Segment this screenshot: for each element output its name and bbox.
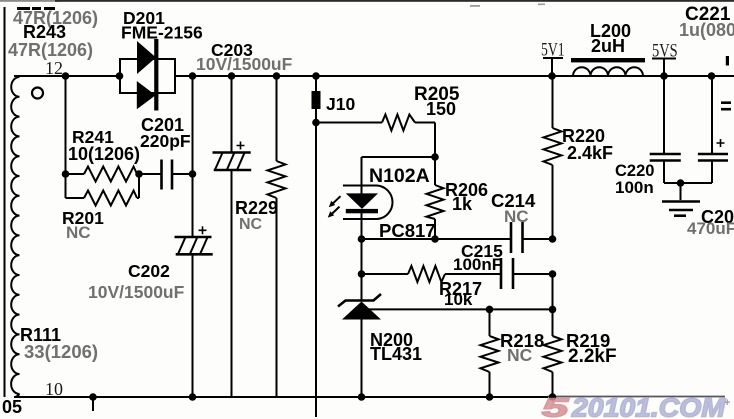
svg-text:R243: R243 bbox=[23, 22, 66, 42]
node junction top rail R229 branch bbox=[273, 72, 281, 80]
node junction R218 top bbox=[486, 306, 494, 314]
capacitor C221 plates cut at edge bbox=[721, 56, 731, 109]
wire horizontal cap commons bbox=[664, 182, 712, 184]
LED emission arrows bbox=[328, 196, 341, 217]
wire vertical opto LED bbox=[361, 157, 363, 300]
inductor L200 bbox=[573, 67, 643, 76]
stray mark top middle bbox=[470, 5, 480, 7]
svg-text:100n: 100n bbox=[615, 178, 654, 197]
resistor R219 bbox=[544, 274, 562, 397]
svg-text:2.4kF: 2.4kF bbox=[567, 143, 613, 163]
node junction top rail J10 branch bbox=[312, 72, 320, 80]
transformer T winding secondary bbox=[11, 77, 19, 394]
node junction top rail 5VS bbox=[660, 72, 668, 80]
svg-text:47R(1206): 47R(1206) bbox=[8, 40, 93, 60]
node junction opto top bbox=[431, 153, 439, 161]
border top edge line bbox=[0, 0, 60, 2]
resistor R206 bbox=[427, 123, 444, 240]
wire top rail left segment bbox=[14, 76, 120, 77]
transformer polarity dot circle bbox=[32, 88, 43, 99]
diode D201 bypass box bbox=[120, 59, 175, 93]
svg-text:NC: NC bbox=[507, 345, 533, 365]
resistor R220 bbox=[544, 76, 562, 239]
svg-text:+: + bbox=[724, 397, 730, 409]
svg-text:20101.COM: 20101.COM bbox=[571, 393, 727, 419]
net label 5VS tick bbox=[652, 59, 676, 77]
watermark 520101.COM bbox=[542, 393, 730, 419]
node junction C201 to vertical bbox=[189, 170, 197, 178]
resistor R201 parallel loop bbox=[66, 174, 140, 206]
wire horizontal to optocoupler anode bbox=[362, 156, 436, 158]
svg-text:1k: 1k bbox=[452, 194, 473, 214]
svg-text:10V/1500uF: 10V/1500uF bbox=[88, 282, 185, 302]
svg-text:NC: NC bbox=[66, 223, 91, 242]
svg-text:10(1206): 10(1206) bbox=[68, 144, 140, 164]
svg-text:2.2kF: 2.2kF bbox=[568, 346, 617, 367]
svg-text:2uH: 2uH bbox=[591, 36, 625, 56]
svg-text:R229: R229 bbox=[235, 198, 278, 218]
resistor R241 bbox=[66, 167, 162, 182]
node junction below J10 bbox=[312, 119, 320, 127]
capacitor C203 electrolytic symbol bbox=[213, 142, 252, 171]
node junction top rail at R241 branch bbox=[62, 72, 70, 80]
diode D201 upper triangle bbox=[137, 41, 156, 74]
resistor R218 bbox=[481, 309, 499, 397]
zener N200 TL431 bbox=[338, 294, 381, 397]
stray mark top middle 2 bbox=[538, 4, 545, 6]
node junction bottom rail R218 bbox=[486, 393, 494, 401]
svg-text:10V/1500uF: 10V/1500uF bbox=[196, 54, 293, 74]
label cut-off text top left bbox=[17, 7, 55, 10]
node junction bottom rail pin10 bbox=[89, 393, 97, 401]
node junction top rail C203 branch bbox=[228, 72, 236, 80]
ground bbox=[662, 183, 700, 216]
wire vertical C202 branch bbox=[192, 76, 194, 397]
wire vertical J10 branch bbox=[315, 76, 317, 417]
svg-text:100nF: 100nF bbox=[453, 255, 502, 274]
node junction top rail at D201 left bbox=[116, 72, 124, 80]
capacitor C214 bbox=[511, 222, 523, 253]
svg-text:PC817: PC817 bbox=[379, 220, 436, 241]
node junction R241 left bbox=[62, 170, 70, 178]
LED cathode bar bbox=[346, 209, 378, 213]
node junction bottom rail TL431 bbox=[358, 393, 366, 401]
svg-text:10k: 10k bbox=[444, 290, 473, 309]
svg-text:J10: J10 bbox=[326, 94, 355, 114]
capacitor C205 electrolytic output bbox=[698, 76, 728, 183]
svg-text:TL431: TL431 bbox=[370, 344, 422, 364]
node junction top rail C202 branch bbox=[189, 72, 197, 80]
node junction ground bbox=[677, 179, 685, 187]
capacitor C220 bbox=[650, 76, 681, 183]
ferrite bead J10 bbox=[312, 91, 321, 109]
inductor L200 core bar bbox=[571, 58, 645, 62]
svg-text:33(1206): 33(1206) bbox=[24, 341, 98, 362]
capacitor C201 bbox=[162, 160, 193, 190]
node junction C215 right bbox=[549, 270, 557, 278]
wire horizontal C214 row bbox=[362, 238, 553, 240]
diode D201 lower triangle bbox=[137, 81, 156, 109]
svg-text:05: 05 bbox=[2, 397, 22, 417]
node junction top rail output cap bbox=[708, 72, 716, 80]
svg-text:C202: C202 bbox=[128, 261, 170, 281]
node junction R219 top bbox=[549, 306, 557, 314]
node junction top rail 5V1 bbox=[548, 72, 556, 80]
svg-text:1u(080(: 1u(080( bbox=[679, 20, 734, 40]
svg-text:220pF: 220pF bbox=[140, 131, 191, 151]
diode D201 cathode bar bbox=[154, 39, 158, 111]
resistor R205 bbox=[316, 115, 435, 131]
node junction bottom rail C202 bbox=[189, 393, 197, 401]
wire vertical branch to R241 bbox=[65, 76, 67, 174]
op-to coupler U N102A enclosure bbox=[343, 186, 393, 220]
svg-text:470uF: 470uF bbox=[687, 219, 734, 238]
wire vertical C203 branch bbox=[231, 76, 233, 397]
node junction C214 right bbox=[549, 235, 557, 243]
wire top rail right segment bbox=[175, 75, 734, 77]
node junction R206 bottom bbox=[431, 235, 439, 243]
svg-text:NC: NC bbox=[239, 216, 263, 233]
svg-text:FME-2156: FME-2156 bbox=[121, 23, 203, 43]
net label 5V1 tick bbox=[543, 58, 563, 76]
wire left border vertical bbox=[4, 7, 6, 397]
resistor R217 row with capacitor C215 bbox=[362, 258, 553, 289]
node junction bottom rail R219 bbox=[549, 393, 557, 401]
capacitor C202 electrolytic symbol bbox=[175, 226, 213, 254]
resistor R229 bbox=[268, 76, 286, 397]
wire stub below rail pin10 bbox=[92, 397, 94, 411]
svg-text:5VS: 5VS bbox=[652, 40, 678, 61]
node junction R217 row left bbox=[358, 270, 366, 278]
node junction opto cathode line left bbox=[358, 235, 366, 243]
svg-text:N102A: N102A bbox=[369, 165, 430, 187]
svg-text:5V1: 5V1 bbox=[541, 40, 565, 60]
svg-text:10: 10 bbox=[45, 379, 63, 399]
wire horizontal reference row bbox=[365, 308, 553, 310]
node junction R241 right bbox=[135, 170, 143, 178]
svg-text:5: 5 bbox=[542, 393, 569, 419]
LED of optocoupler triangle bbox=[346, 193, 378, 209]
wire bottom rail bbox=[14, 394, 548, 397]
svg-text:150: 150 bbox=[426, 99, 456, 119]
svg-text:NC: NC bbox=[504, 207, 529, 226]
